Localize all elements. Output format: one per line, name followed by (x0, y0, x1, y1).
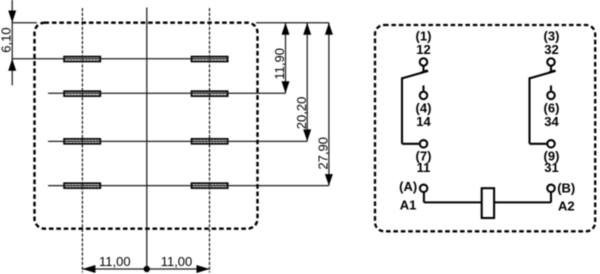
svg-text:(A): (A) (399, 179, 417, 194)
svg-text:27,90: 27,90 (316, 137, 331, 170)
svg-text:A1: A1 (400, 198, 417, 213)
svg-text:34: 34 (544, 114, 559, 129)
svg-text:12: 12 (416, 42, 430, 57)
svg-text:11,00: 11,00 (99, 254, 131, 269)
svg-text:20,20: 20,20 (294, 97, 309, 130)
svg-text:31: 31 (544, 160, 558, 175)
svg-text:11,00: 11,00 (161, 254, 193, 269)
svg-text:11,90: 11,90 (272, 48, 287, 80)
svg-text:14: 14 (416, 114, 431, 129)
svg-text:11: 11 (417, 160, 431, 175)
svg-text:32: 32 (544, 42, 558, 57)
svg-text:(B): (B) (557, 181, 575, 196)
svg-text:A2: A2 (558, 199, 575, 214)
svg-text:6,10: 6,10 (0, 27, 14, 52)
